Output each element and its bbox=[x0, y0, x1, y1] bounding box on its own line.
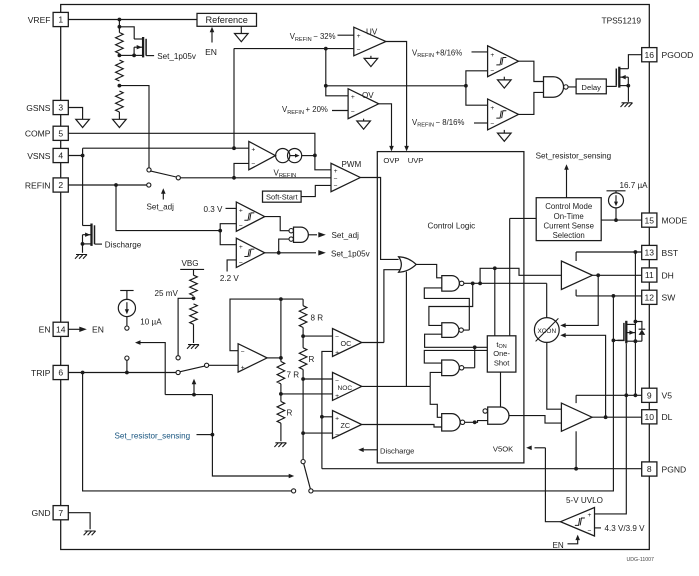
wire ZC- input bbox=[303, 432, 332, 434]
svg-text:R: R bbox=[309, 355, 315, 364]
wire OV minus input bbox=[332, 110, 348, 112]
resistor R divider top bbox=[116, 33, 124, 54]
svg-text:5-V UVLO: 5-V UVLO bbox=[566, 496, 603, 505]
XCON crossover block bbox=[534, 318, 559, 343]
pin 16 PGOOD bbox=[642, 48, 657, 62]
wire NAND1-a cross to NAND2 bbox=[429, 283, 473, 325]
svg-text:PGND: PGND bbox=[662, 464, 687, 474]
pin 10 DL bbox=[642, 410, 657, 424]
svg-text:+: + bbox=[351, 94, 355, 101]
wire VREF to Reference bbox=[68, 19, 197, 21]
svg-text:Set_adj: Set_adj bbox=[147, 203, 175, 212]
arrow 10uA switch control bbox=[135, 340, 141, 345]
svg-text:NOC: NOC bbox=[338, 385, 353, 392]
switch trip contact out bbox=[205, 363, 209, 367]
node NAND1 out b bbox=[478, 281, 482, 285]
transistor Discharge bbox=[90, 224, 92, 246]
wire sense rail vertical bbox=[325, 49, 327, 86]
svg-text:Selection: Selection bbox=[553, 231, 585, 240]
node DH bbox=[596, 273, 600, 277]
ground PG low bbox=[503, 130, 505, 133]
node MODE bbox=[614, 218, 618, 222]
pin 15 MODE bbox=[642, 213, 657, 227]
wire one-shot line2 to NAND3 bbox=[424, 350, 487, 363]
svg-text:−: − bbox=[588, 528, 592, 535]
wire NOC output bbox=[362, 385, 431, 387]
svg-text:BST: BST bbox=[662, 248, 679, 258]
svg-text:+: + bbox=[335, 349, 339, 356]
svg-text:Set_resistor_sensing: Set_resistor_sensing bbox=[536, 152, 612, 161]
gate OR bbox=[399, 257, 417, 273]
svg-text:+: + bbox=[251, 146, 255, 153]
svg-text:8: 8 bbox=[647, 464, 652, 474]
wire discharge source to ground bbox=[82, 244, 84, 253]
svg-text:TRIP: TRIP bbox=[31, 368, 51, 378]
wire BST to boot switch bbox=[634, 252, 636, 322]
wire TRIP bbox=[68, 372, 176, 374]
svg-text:Discharge: Discharge bbox=[380, 446, 414, 455]
svg-text:OVP: OVP bbox=[383, 156, 399, 165]
block tON One-Shot bbox=[487, 336, 516, 372]
svg-text:PGOOD: PGOOD bbox=[662, 50, 694, 60]
resistor 8R bbox=[299, 306, 307, 328]
node BST bbox=[634, 250, 638, 254]
gate NAND3 bbox=[442, 360, 460, 376]
wire mode-select into one-shot top b bbox=[510, 218, 537, 335]
arrow trip switch control bbox=[193, 383, 195, 395]
contact trip-sense left bbox=[292, 489, 296, 493]
switch resistor-sense contact ladder bbox=[301, 460, 305, 464]
wire NAND2 in2 / one-shot line1 bbox=[425, 334, 488, 347]
svg-text:TPS51219: TPS51219 bbox=[602, 16, 642, 26]
comparator OV bbox=[348, 89, 379, 119]
svg-text:SW: SW bbox=[662, 293, 677, 303]
svg-text:R: R bbox=[287, 408, 293, 417]
wire PG high output bbox=[519, 61, 544, 81]
node VREFIN line bbox=[232, 176, 236, 180]
svg-text:EN: EN bbox=[205, 47, 217, 57]
wire buffer output bbox=[267, 357, 281, 359]
wire divider bbox=[118, 20, 120, 33]
svg-text:−: − bbox=[334, 176, 338, 183]
resistor R divider mid bbox=[116, 60, 124, 81]
switch 10uA contact top bbox=[125, 326, 129, 330]
svg-text:9: 9 bbox=[647, 391, 652, 401]
svg-text:V5OK: V5OK bbox=[493, 444, 514, 453]
resistor VBG bottom bbox=[190, 304, 198, 324]
ground OV bbox=[363, 119, 365, 121]
gate NAND2 bbox=[442, 323, 459, 338]
resistor R (7R ladder) bbox=[277, 402, 285, 424]
svg-text:Delay: Delay bbox=[581, 83, 601, 92]
gate NAND1 bbox=[442, 276, 460, 292]
driver DL bbox=[561, 403, 592, 431]
svg-text:+: + bbox=[335, 416, 339, 423]
op-amp current sense buffer bbox=[238, 344, 267, 372]
node REFIN monitor bbox=[218, 229, 222, 233]
svg-text:12: 12 bbox=[645, 293, 655, 303]
svg-text:One-: One- bbox=[493, 349, 510, 358]
pin 4 VSNS bbox=[53, 148, 68, 162]
wire OR out to NAND1 bbox=[416, 264, 442, 277]
svg-text:7: 7 bbox=[58, 508, 63, 518]
svg-text:16.7 µA: 16.7 µA bbox=[620, 181, 649, 190]
wire divider tap to switch bbox=[119, 86, 149, 168]
wire VSNS to discharge bbox=[82, 156, 84, 226]
svg-text:MODE: MODE bbox=[662, 215, 688, 225]
gate NAND PGOOD bbox=[544, 77, 564, 98]
wire 2.2V output bbox=[265, 252, 316, 254]
svg-text:+: + bbox=[357, 33, 361, 40]
wire REFIN monitor bbox=[116, 185, 220, 231]
svg-text:Shot: Shot bbox=[494, 359, 510, 368]
wire PGOOD pin to drain bbox=[628, 55, 641, 69]
gate AND DL bbox=[483, 409, 487, 413]
node NAND4 out bbox=[473, 420, 477, 424]
wire boot source to V5 bbox=[634, 341, 636, 395]
wire SW bbox=[576, 290, 642, 296]
svg-text:16: 16 bbox=[645, 50, 655, 60]
pin 7 GND bbox=[53, 506, 68, 520]
node REFIN bbox=[114, 183, 118, 187]
svg-text:Control Mode: Control Mode bbox=[545, 202, 592, 211]
node 25mV tap bbox=[192, 296, 196, 300]
svg-text:+: + bbox=[241, 365, 245, 372]
svg-text:+: + bbox=[239, 208, 243, 215]
svg-text:+: + bbox=[490, 52, 494, 59]
node VSNS bbox=[81, 154, 85, 158]
svg-text:OC: OC bbox=[341, 339, 352, 348]
svg-text:0.3 V: 0.3 V bbox=[204, 205, 224, 214]
node NOC- tap bbox=[301, 377, 305, 381]
wire GND pin bbox=[68, 513, 90, 530]
svg-text:−: − bbox=[335, 378, 339, 385]
svg-text:UDG-11007: UDG-11007 bbox=[627, 557, 655, 563]
pin 6 TRIP bbox=[53, 365, 68, 379]
wire NOC to NAND4 in1 bbox=[430, 386, 442, 417]
node divider mid1 bbox=[118, 54, 122, 58]
wire NOC- input bbox=[303, 378, 332, 380]
svg-text:7 R: 7 R bbox=[287, 371, 300, 380]
wire REFIN bbox=[68, 184, 146, 186]
wire PG low output bbox=[519, 92, 544, 114]
comparator UV bbox=[354, 27, 386, 56]
pin 11 DH bbox=[642, 268, 657, 282]
switch Set_adj contact top bbox=[147, 168, 151, 172]
svg-text:1: 1 bbox=[58, 15, 63, 25]
svg-text:10 µA: 10 µA bbox=[140, 318, 162, 327]
IC boundary TPS51219 bbox=[61, 5, 650, 550]
svg-text:6: 6 bbox=[58, 368, 63, 378]
node V5 a bbox=[634, 393, 638, 397]
pin 9 V5 bbox=[642, 388, 657, 402]
ground PG high bbox=[503, 77, 505, 80]
arrow selection control bbox=[566, 168, 568, 197]
node NAND1 out a bbox=[471, 281, 475, 285]
svg-text:UV: UV bbox=[366, 28, 378, 37]
wire Set_adj out bbox=[308, 234, 317, 236]
node ladder top bbox=[279, 297, 283, 301]
svg-text:Current Sense: Current Sense bbox=[543, 221, 593, 230]
switch resistor-sense contact SW bbox=[309, 489, 313, 493]
wire NAND1-b up to tON line bbox=[480, 268, 561, 283]
svg-text:−: − bbox=[490, 121, 494, 128]
wire 7R chain bbox=[280, 358, 282, 362]
svg-text:+: + bbox=[335, 393, 339, 400]
wire to ground bbox=[118, 112, 120, 119]
node sense ctl bbox=[211, 433, 215, 437]
wire 25mV to switch bbox=[178, 298, 193, 355]
wire boot channel to V5 sense bbox=[625, 344, 627, 396]
node buffer out bbox=[279, 356, 283, 360]
node divider tap bbox=[118, 84, 122, 88]
svg-text:VBG: VBG bbox=[182, 259, 199, 268]
wire DL output bbox=[592, 416, 642, 418]
svg-text:−: − bbox=[241, 349, 245, 356]
wire UV output to UVP bbox=[386, 42, 407, 149]
svg-text:−: − bbox=[239, 223, 243, 230]
node tON drive bbox=[493, 266, 497, 270]
comparator OC bbox=[333, 329, 362, 357]
svg-text:OV: OV bbox=[362, 91, 374, 100]
svg-text:−: − bbox=[490, 68, 494, 75]
wire OC- input bbox=[303, 335, 332, 337]
wire DL driver ground stub bbox=[575, 431, 577, 468]
wire NAND2 out cross to NAND1 bbox=[424, 288, 469, 330]
wire NAND1 output bbox=[464, 283, 547, 317]
node TRIP a bbox=[81, 371, 85, 375]
svg-text:GND: GND bbox=[32, 508, 51, 518]
svg-text:+: + bbox=[334, 168, 338, 175]
resistor 7R bbox=[277, 362, 285, 384]
svg-text:PWM: PWM bbox=[342, 160, 362, 169]
wire ladder top to 8R bbox=[281, 299, 303, 306]
switch Set_adj blade bbox=[150, 171, 176, 177]
wire switch to PWM/error amp bbox=[181, 177, 332, 179]
node boot gate bbox=[612, 339, 616, 343]
svg-text:13: 13 bbox=[645, 248, 655, 258]
wire NAND3 out up to one-shot line bbox=[464, 347, 475, 368]
wire 2.2V ref lead bbox=[227, 260, 236, 272]
wire UVLO minus ref bbox=[595, 527, 602, 529]
wire ZC output to NAND4 bbox=[362, 425, 442, 428]
diode bootstrap bbox=[634, 320, 638, 324]
ground VBG bbox=[187, 345, 199, 349]
wire NOC to NAND3 in2 bbox=[430, 372, 442, 386]
svg-text:XCON: XCON bbox=[537, 328, 556, 335]
current source 10uA bbox=[120, 290, 133, 292]
svg-text:Reference: Reference bbox=[206, 15, 248, 25]
arrow Set_adj control bbox=[162, 192, 164, 200]
comparator 0.3V bbox=[236, 202, 264, 231]
wire AND out to DL driver bbox=[509, 416, 562, 424]
block Soft-Start bbox=[263, 191, 302, 202]
node VREF divider top bbox=[118, 18, 122, 22]
wire sense rail to PG comparators bbox=[326, 85, 466, 87]
wire gate Set_1p05v bbox=[146, 55, 154, 57]
node control line bbox=[192, 393, 196, 397]
svg-text:+: + bbox=[239, 244, 243, 251]
switch trip contact 25mV bbox=[176, 356, 180, 360]
node PGND/driver bbox=[574, 467, 578, 471]
ground 7R ladder bbox=[274, 443, 286, 447]
node V5 b bbox=[624, 393, 628, 397]
ground Reference bbox=[240, 26, 242, 33]
wire NOC+ input bbox=[281, 393, 333, 395]
switch 10uA contact bottom bbox=[125, 356, 129, 360]
node COMP/gm output bbox=[313, 154, 317, 158]
comparator 5-V UVLO bbox=[561, 508, 595, 537]
svg-text:VREF: VREF bbox=[28, 15, 51, 25]
node TRIP b bbox=[125, 371, 129, 375]
switch trip blade bbox=[180, 366, 204, 372]
transistor bootstrap switch bbox=[625, 321, 627, 344]
svg-text:ZC: ZC bbox=[341, 421, 351, 430]
ground PGOOD bbox=[621, 103, 633, 107]
wire MODE bbox=[601, 219, 642, 221]
block Delay bbox=[576, 79, 606, 94]
pin 14 EN bbox=[53, 322, 68, 336]
wire one-shot out to AND bbox=[500, 372, 502, 406]
svg-text:GSNS: GSNS bbox=[26, 103, 51, 113]
svg-text:4.3 V/3.9 V: 4.3 V/3.9 V bbox=[605, 524, 646, 533]
svg-text:−: − bbox=[239, 259, 243, 266]
wire SW sense down bbox=[313, 296, 613, 491]
svg-text:Set_1p05v: Set_1p05v bbox=[331, 249, 371, 258]
ground GND pin bbox=[84, 531, 96, 535]
svg-text:3: 3 bbox=[58, 103, 63, 113]
pin 5 COMP bbox=[53, 126, 68, 140]
ground Discharge bbox=[75, 255, 87, 259]
node PG sense bbox=[464, 84, 468, 88]
svg-text:5: 5 bbox=[58, 129, 63, 139]
comparator 2.2V bbox=[236, 238, 264, 267]
svg-text:EN: EN bbox=[553, 541, 564, 550]
wire COMP bbox=[68, 133, 331, 170]
ground UV bbox=[370, 56, 372, 59]
arrow Set_1p05v out bbox=[318, 250, 326, 255]
svg-text:11: 11 bbox=[645, 270, 654, 280]
wire EN pin arrow bbox=[68, 328, 79, 330]
comparator PGOOD low (VREFIN-8/16%) bbox=[488, 99, 519, 130]
svg-text:−: − bbox=[351, 109, 355, 116]
comparator ZC bbox=[333, 411, 362, 439]
ground divider bbox=[113, 119, 127, 127]
svg-text:Set_resistor_sensing: Set_resistor_sensing bbox=[115, 432, 191, 441]
svg-text:Control Logic: Control Logic bbox=[428, 221, 476, 230]
wire 0.3V output bbox=[265, 217, 289, 231]
switch Set_adj contact out bbox=[176, 176, 180, 180]
node ZC- tap bbox=[301, 431, 305, 435]
svg-text:COMP: COMP bbox=[25, 129, 51, 139]
node ZC+ tap bbox=[320, 415, 324, 419]
pin 12 SW bbox=[642, 290, 657, 304]
wire divider MOSFET branch bbox=[119, 27, 134, 39]
svg-text:V5: V5 bbox=[662, 391, 673, 401]
wire PGOOD source to ground bbox=[627, 86, 629, 102]
pin 8 PGND bbox=[642, 462, 657, 476]
block Control Logic bbox=[377, 152, 524, 463]
svg-text:Soft-Start: Soft-Start bbox=[266, 193, 298, 202]
wire VSNS bbox=[68, 148, 249, 155]
node one-shot in bbox=[473, 345, 477, 349]
wire NAND to Delay bbox=[568, 86, 576, 88]
gate NAND4 bbox=[442, 414, 461, 431]
switch trip contact TRIP bbox=[176, 370, 180, 374]
pin 1 VREF bbox=[53, 12, 68, 26]
transistor PGOOD open-drain bbox=[606, 85, 617, 87]
wire EN into Reference bbox=[211, 32, 213, 43]
node 2.2V out bbox=[277, 251, 281, 255]
wire UVP stub vertical bbox=[405, 272, 407, 387]
pin 2 REFIN bbox=[53, 178, 68, 192]
arrow DL into XCON bbox=[563, 335, 606, 417]
wire control line bbox=[165, 394, 212, 396]
block Control Mode selection bbox=[536, 198, 601, 241]
switch resistor-sense blade bbox=[304, 464, 311, 489]
current source output stage bbox=[276, 149, 290, 163]
wire UV plus input bbox=[338, 34, 354, 36]
wire TRIP to bottom sense rail bbox=[83, 373, 292, 491]
wire OC+ rail bbox=[322, 351, 333, 468]
wire UV minus input bbox=[234, 48, 354, 50]
svg-text:DH: DH bbox=[662, 270, 674, 280]
transistor Set_1p05v switch bbox=[142, 37, 144, 57]
resistor R (8R ladder) bbox=[299, 348, 307, 370]
node UV sense bbox=[324, 47, 328, 51]
current source 16.7uA bbox=[607, 191, 626, 193]
wire VSNS to UV/OV sense rail bbox=[233, 49, 235, 149]
svg-text:REFIN: REFIN bbox=[25, 180, 51, 190]
svg-text:25 mV: 25 mV bbox=[155, 289, 179, 298]
wire DH output bbox=[592, 274, 641, 276]
arrow DH into XCON bbox=[563, 275, 598, 325]
node VSNS sense bbox=[232, 146, 236, 150]
ground GSNS bbox=[76, 119, 90, 127]
supply bar VBG bbox=[180, 269, 204, 275]
node OV sense bbox=[324, 84, 328, 88]
driver DH bbox=[561, 261, 592, 290]
wire Soft-Start to PWM bbox=[301, 185, 331, 196]
svg-text:4: 4 bbox=[58, 151, 63, 161]
wire PGND rail bbox=[322, 468, 642, 470]
wire feedback loop bbox=[230, 299, 281, 358]
pin 3 GSNS bbox=[53, 100, 68, 114]
resistor VBG top bbox=[190, 275, 198, 295]
wire into one-shot top a bbox=[494, 268, 496, 336]
comparator PGOOD high (VREFIN+8/16%) bbox=[488, 46, 519, 77]
svg-text:−: − bbox=[334, 183, 338, 190]
svg-text:10: 10 bbox=[645, 412, 655, 422]
svg-text:UVP: UVP bbox=[408, 156, 424, 165]
wire 10uA to switch bbox=[126, 317, 128, 326]
svg-text:14: 14 bbox=[56, 325, 66, 335]
node DL bbox=[604, 415, 608, 419]
wire to CS amp bbox=[209, 364, 238, 366]
contact REFIN side bbox=[147, 183, 151, 187]
svg-text:−: − bbox=[251, 161, 255, 168]
svg-text:EN: EN bbox=[39, 325, 51, 335]
node NOC+ tap bbox=[279, 392, 283, 396]
node boot source bbox=[634, 339, 638, 343]
resistor R divider bottom bbox=[116, 91, 124, 112]
svg-text:8 R: 8 R bbox=[311, 314, 324, 323]
node OC- tap bbox=[301, 334, 305, 338]
wire sense control down bbox=[212, 395, 289, 476]
comparator NOC bbox=[333, 372, 362, 400]
wire OV plus input bbox=[326, 86, 348, 96]
wire UVLO output to V5OK bbox=[545, 448, 560, 522]
